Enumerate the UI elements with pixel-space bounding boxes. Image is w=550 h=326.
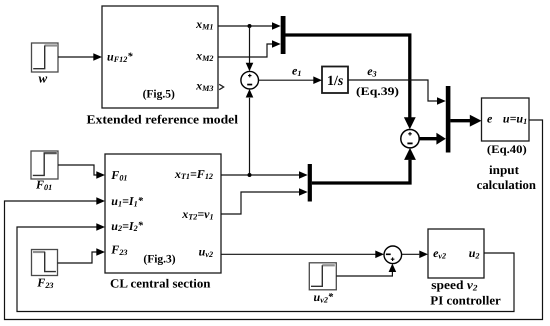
wire xT1 feedback up to sum1 [249,98,251,175]
wire uv2* to sum3 [336,268,392,277]
wire mux1 out thick to sum2 top [286,35,410,118]
svg-text:(Fig.5): (Fig.5) [143,89,175,101]
wire sum3 to PI [402,253,420,255]
wire xT2 to muxL [221,192,299,214]
block ERM Extended reference model (Fig.5) [102,6,218,108]
wire e3 integrator to mux2 [348,80,437,101]
step source uv2* [309,263,336,290]
sum1 circle [241,71,259,89]
svg-text:(Fig.3): (Fig.3) [143,254,175,266]
sum3 circle [384,246,402,264]
svg-text:calculation: calculation [477,178,536,192]
step source F23 (step down) [32,250,58,276]
wire xM1 [218,25,273,27]
node junction xM1 [248,24,252,28]
wire u=u1 feedback to u1 input [5,120,543,320]
wire w to ERM [58,56,94,58]
wire mux2 out thick to Eq40 [450,119,470,122]
wire xM2 [218,44,272,57]
svg-text:u2=I2*: u2=I2* [111,219,143,233]
wire muxL out thick to sum2 bottom [312,160,410,183]
sum2 circle [401,130,419,148]
svg-text:PI controller: PI controller [430,294,501,308]
svg-text:e: e [487,112,493,126]
step source w [32,43,59,72]
svg-text:u1=I1*: u1=I1* [111,194,143,208]
node junction xT1 [248,173,252,177]
port xM3 open arrow [219,84,224,89]
svg-text:1/s: 1/s [327,74,344,89]
mux L (lower) [308,164,312,202]
wire u2 feedback to u2 input [17,227,514,312]
step source F01 [31,151,58,179]
svg-text:speed v2: speed v2 [431,278,478,292]
block integrator 1/s [322,67,348,94]
wire sum1 to integrator e1 [259,79,314,81]
svg-text:input: input [489,163,520,177]
block CL central section (Fig.3) [105,154,221,273]
svg-text:xT2=v1: xT2=v1 [181,207,213,221]
block input calculation (Eq.40) [482,98,530,141]
wire F23 to CL [58,252,97,263]
wire xM1 down to sum1 [249,26,251,64]
mux M1 (top) [281,16,286,54]
wire xT1 to muxL [221,174,299,176]
wire F01 to CL [58,165,97,175]
block speed v2 PI controller [428,229,484,278]
wire uv2 CL to sum3 [221,253,376,255]
svg-text:Extended reference model: Extended reference model [87,113,239,127]
mux 2 (right) [446,86,451,153]
svg-text:(Eq.40): (Eq.40) [487,144,527,156]
wire sum2 out thick to mux2 [419,137,437,140]
svg-text:CL central section: CL central section [110,276,211,290]
svg-text:(Eq.39): (Eq.39) [356,86,399,98]
svg-text:w: w [39,71,48,86]
